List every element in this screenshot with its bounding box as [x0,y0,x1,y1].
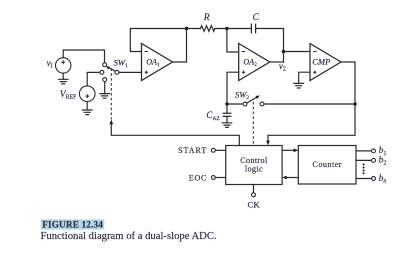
terminal START [211,148,225,152]
dashed control line SW2 [252,102,254,146]
wire OA1 output [173,29,187,63]
label VREF [60,90,77,101]
label b2 [379,156,387,167]
source VREF [79,86,95,102]
switch SW1 contacts [100,63,119,82]
resistor R [201,26,215,32]
output bn [356,177,375,181]
label OA1 [146,58,160,69]
label CMP [312,57,330,67]
wire SW1 pole to OA1 [119,71,142,73]
wire CMP plus input [299,72,310,83]
label v2 [279,61,286,73]
ground below vI [58,79,68,84]
svg-text:Functional diagram of a dual-s: Functional diagram of a dual-slope ADC. [41,231,217,242]
counter box [298,146,356,185]
label SW2 [235,89,249,101]
capacitor CAZ [223,113,230,116]
wire OA2 output [270,61,284,63]
label OA2 [243,58,257,69]
dotted ellipsis outputs [363,164,365,175]
wire SW1 ground stem [104,82,106,94]
arrow into control logic [266,141,270,146]
wire SW2 right [264,103,355,105]
svg-text:CAZ: CAZ [206,110,220,122]
wire counter to control [282,176,298,180]
wire VREF bottom [86,102,88,111]
ground below VREF [82,110,92,115]
svg-text:EOC: EOC [189,173,207,182]
svg-text:bn: bn [379,174,387,185]
label EOC [189,173,207,182]
caption highlight [41,219,105,229]
output b1 [356,149,375,153]
svg-text:vI: vI [47,58,53,70]
wire CMP output [268,62,355,141]
svg-text:SW2: SW2 [235,89,249,101]
wire OA2 minus input [227,29,239,53]
dashed control line SW1 [110,68,112,119]
svg-text:Counter: Counter [312,160,342,169]
label b1 [379,146,387,157]
ground at CMP plus [294,83,304,88]
wire to CMP minus [284,51,311,53]
caption figure number [42,220,103,230]
wire R to C [215,28,252,30]
label SW1 [114,58,128,70]
node R-C junction [225,27,229,31]
wire vI bottom [62,73,64,79]
svg-text:VREF: VREF [60,90,77,101]
capacitor CAZ stem [226,104,228,113]
label CK [247,200,260,210]
wire OA2 plus input [227,72,239,104]
label R [203,13,210,23]
svg-text:SW1: SW1 [114,58,128,70]
op-amp OA1 [142,44,173,81]
node feedback junction [185,27,189,31]
comparator CMP [310,44,341,81]
wire control to counter [282,148,298,152]
terminal CK [252,185,256,197]
svg-text:START: START [178,146,207,155]
output b2 [356,158,375,162]
label START [178,146,207,155]
source vI [56,58,71,73]
node OA2 plus / CAZ junction [225,102,229,106]
label bn [379,174,387,185]
svg-text:R: R [203,13,210,23]
wire OA1 feedback left [130,29,200,52]
wire SW2 left [227,103,243,105]
wire vI top [63,50,104,63]
label Control logic [240,156,268,174]
svg-text:CMP: CMP [312,57,330,67]
switch SW2 arm [247,95,260,103]
svg-text:C: C [253,13,260,23]
ground below SW1 [100,94,110,99]
label Counter [312,160,342,169]
node integrator output [282,50,286,54]
wire control to SW1 [111,124,239,146]
svg-text:v2: v2 [279,61,286,73]
control logic box [226,146,282,185]
label vI [47,58,53,70]
svg-text:FIGURE 12.34: FIGURE 12.34 [42,220,103,230]
switch SW2 contacts [243,102,264,106]
capacitor C [251,24,255,32]
caption text [41,231,217,242]
svg-text:b2: b2 [379,156,387,167]
svg-text:logic: logic [245,165,263,174]
label C [253,13,260,23]
label CAZ [206,110,220,122]
wire VREF top [87,72,100,86]
node SW2-CMP junction [353,102,357,106]
svg-text:CK: CK [247,200,260,210]
terminal EOC [211,176,225,180]
ground below CAZ [222,123,232,128]
wire CAZ to ground [226,116,228,122]
wire C to output node [256,29,284,63]
arrow to SW1 [109,120,113,125]
op-amp OA2 [239,44,270,81]
switch SW1 arm [106,66,115,72]
